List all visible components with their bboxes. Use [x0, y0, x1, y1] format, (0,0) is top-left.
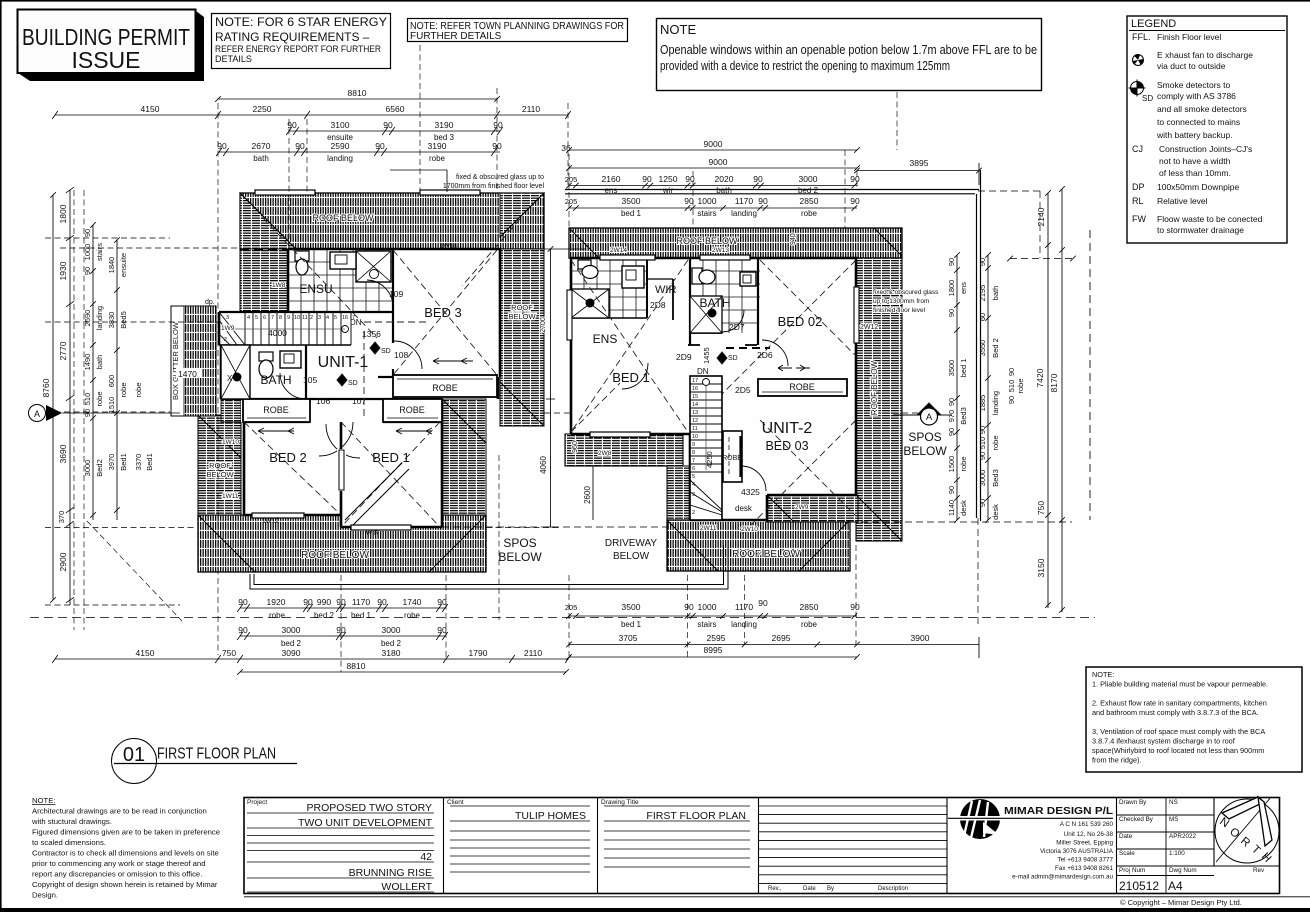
svg-text:with stuctural drawings.: with stuctural drawings. [31, 817, 112, 826]
svg-text:90: 90 [493, 120, 503, 130]
svg-text:90: 90 [684, 196, 694, 206]
svg-text:Checked By: Checked By [1119, 816, 1154, 823]
svg-text:UNIT-2: UNIT-2 [762, 420, 813, 437]
svg-text:fixed & obscured glass up to: fixed & obscured glass up to [456, 174, 544, 181]
svg-text:prior to commencing any work o: prior to commencing any work or stage th… [32, 859, 205, 868]
unit2 bed03 door arc [741, 466, 766, 491]
u1 bottom dim row1 [240, 607, 445, 609]
svg-text:106: 106 [316, 396, 330, 406]
unit1 exterior walls [219, 249, 500, 527]
svg-text:90: 90 [437, 597, 447, 607]
unit2 bed03 robe [723, 431, 742, 482]
svg-text:ISSUE: ISSUE [71, 47, 140, 73]
u2 top dim 3895 [857, 170, 979, 172]
svg-text:e-mail admin@mimardesign.com.a: e-mail admin@mimardesign.com.au [1012, 874, 1113, 881]
svg-text:3000: 3000 [83, 460, 92, 477]
svg-text:1170: 1170 [352, 597, 371, 607]
svg-text:and bathroom must comply with: and bathroom must comply with 3.8.7.3 of… [1092, 708, 1259, 717]
unit1 bath vanity [280, 351, 301, 368]
unit1 robe bed2 [243, 399, 310, 422]
svg-text:90: 90 [375, 141, 385, 151]
note box town planning [408, 19, 628, 42]
svg-text:1490: 1490 [83, 354, 92, 371]
svg-text:ROBE: ROBE [263, 405, 289, 415]
svg-text:2: 2 [310, 315, 313, 321]
svg-text:210512: 210512 [1119, 879, 1159, 893]
svg-text:2595: 2595 [707, 633, 726, 643]
copyright line [244, 896, 1310, 898]
svg-text:990: 990 [317, 597, 331, 607]
right dim col B [987, 255, 989, 520]
unit1 roof bottom band [198, 515, 486, 572]
u2 top extension dashed [569, 150, 857, 228]
svg-text:Dwg Num: Dwg Num [1169, 867, 1197, 874]
svg-text:1455: 1455 [702, 347, 711, 364]
svg-text:BED 2: BED 2 [269, 450, 307, 465]
page border left [0, 0, 2, 912]
svg-text:8: 8 [692, 450, 695, 456]
svg-text:9: 9 [692, 442, 695, 448]
svg-text:BOX GUTTER BELOW: BOX GUTTER BELOW [171, 321, 180, 400]
svg-text:3000: 3000 [799, 174, 818, 184]
unit1 eave bold dashed [240, 248, 292, 250]
svg-text:2770: 2770 [58, 341, 68, 360]
svg-text:7: 7 [352, 315, 355, 321]
svg-text:Drawn By: Drawn By [1119, 799, 1147, 806]
svg-text:3: 3 [692, 492, 695, 498]
svg-text:DETAILS: DETAILS [215, 54, 252, 64]
svg-text:2160: 2160 [602, 174, 621, 184]
svg-text:90: 90 [383, 120, 393, 130]
svg-text:WOLLERT: WOLLERT [381, 881, 432, 893]
u2 top dim 9000 [569, 149, 857, 151]
svg-text:2W9: 2W9 [795, 504, 809, 511]
svg-text:5: 5 [692, 474, 695, 480]
svg-text:Tel +613 9408 3777: Tel +613 9408 3777 [1058, 857, 1114, 864]
svg-text:REFER ENERGY REPORT FOR FURTHE: REFER ENERGY REPORT FOR FURTHER [215, 44, 381, 54]
unit1 bed3 door arc [394, 341, 422, 369]
svg-text:BELOW: BELOW [498, 550, 542, 564]
svg-text:9000: 9000 [709, 157, 728, 167]
svg-text:90: 90 [947, 486, 956, 494]
u1 top dim row D [219, 151, 500, 153]
u1 bottom dim row2 [240, 635, 445, 637]
unit1 roof left band [240, 249, 288, 312]
svg-text:MS: MS [1169, 816, 1178, 823]
unit1 stairs [219, 312, 351, 345]
svg-text:BELOW: BELOW [508, 312, 536, 321]
svg-text:370: 370 [57, 511, 66, 524]
svg-text:to stormwater drainage: to stormwater drainage [1157, 225, 1244, 235]
svg-text:CJ: CJ [1132, 144, 1143, 154]
svg-text:landing: landing [731, 209, 757, 218]
svg-text:Contractor is to check all dim: Contractor is to check all dimensions an… [32, 849, 219, 858]
svg-text:1470: 1470 [178, 369, 197, 379]
svg-text:1:100: 1:100 [1169, 850, 1185, 857]
svg-text:3100: 3100 [331, 120, 350, 130]
svg-text:90: 90 [1007, 396, 1016, 404]
unit1 ensuite toilet [295, 251, 309, 261]
dashed spos lines [420, 526, 667, 528]
unit2 interior white [571, 258, 856, 434]
svg-text:SD: SD [1142, 94, 1153, 103]
svg-text:4325: 4325 [741, 487, 760, 497]
svg-text:BELOW: BELOW [903, 444, 947, 458]
svg-text:robe: robe [95, 391, 104, 406]
svg-text:landing: landing [327, 154, 353, 163]
svg-text:RATING REQUIREMENTS –: RATING REQUIREMENTS – [215, 30, 370, 44]
svg-text:ROBE: ROBE [432, 383, 458, 393]
svg-text:12: 12 [692, 418, 698, 424]
svg-text:Bed5: Bed5 [119, 311, 128, 329]
svg-text:landing: landing [991, 391, 1000, 415]
svg-text:1000: 1000 [83, 244, 92, 261]
svg-text:3000: 3000 [978, 470, 987, 487]
svg-text:1000: 1000 [698, 196, 717, 206]
svg-text:bed 1: bed 1 [959, 359, 968, 378]
svg-text:2250: 2250 [253, 104, 272, 114]
svg-text:Bed1: Bed1 [119, 453, 128, 471]
svg-text:8995: 8995 [704, 645, 723, 655]
unit1 wall bath right [305, 345, 307, 399]
svg-text:1W16: 1W16 [440, 243, 457, 250]
unit1 bed2 bed1 doors [319, 422, 353, 456]
svg-text:E xhaust fan to discharge: E xhaust fan to discharge [1157, 50, 1253, 60]
svg-text:Relative level: Relative level [1157, 196, 1208, 206]
svg-text:bed 2: bed 2 [381, 639, 402, 648]
svg-text:6560: 6560 [386, 104, 405, 114]
svg-text:90: 90 [850, 196, 860, 206]
svg-text:BRUNNING RISE: BRUNNING RISE [349, 867, 432, 879]
svg-text:750: 750 [1036, 501, 1046, 515]
svg-text:Project: Project [247, 799, 267, 806]
svg-text:2W11: 2W11 [700, 525, 717, 532]
svg-text:from the ridge).: from the ridge). [1092, 756, 1141, 765]
unit2 hip lines [874, 228, 902, 256]
unit2 ens tiles [571, 258, 647, 318]
svg-text:2600: 2600 [583, 486, 592, 504]
svg-text:970: 970 [947, 410, 956, 423]
svg-text:16: 16 [342, 315, 348, 321]
svg-text:robe: robe [119, 382, 128, 397]
svg-text:11: 11 [302, 315, 308, 321]
svg-text:Smoke detectors to: Smoke detectors to [1157, 80, 1231, 90]
svg-text:2140: 2140 [1036, 207, 1046, 226]
svg-text:9000: 9000 [704, 139, 723, 149]
bottom long dashed line [30, 617, 1095, 619]
svg-text:2D5: 2D5 [735, 385, 751, 395]
svg-text:1790: 1790 [469, 648, 488, 658]
svg-text:fixed & obscured glass: fixed & obscured glass [873, 289, 939, 296]
svg-text:2695: 2695 [772, 633, 791, 643]
svg-text:desk: desk [991, 504, 1000, 520]
unit1 bed3 robe [393, 375, 497, 397]
unit1 roof left lower column [198, 415, 241, 515]
svg-text:108: 108 [394, 350, 408, 360]
unit2 bath tiles [690, 258, 760, 333]
svg-text:ensuite: ensuite [119, 253, 128, 277]
svg-text:8810: 8810 [348, 88, 367, 98]
svg-text:stairs: stairs [697, 209, 716, 218]
svg-text:DN: DN [697, 367, 709, 376]
svg-text:RL: RL [1132, 196, 1144, 206]
unit1 bed2 dashed diag [244, 422, 440, 527]
svg-text:Finish Floor level: Finish Floor level [1157, 32, 1221, 42]
svg-text:90: 90 [947, 428, 956, 436]
svg-text:2195: 2195 [978, 285, 987, 302]
unit2 roof right column [856, 258, 902, 541]
svg-text:ROOF BELOW: ROOF BELOW [870, 360, 879, 415]
svg-text:robe: robe [1016, 378, 1025, 393]
svg-text:ROOF BELOW: ROOF BELOW [732, 549, 800, 560]
svg-text:A: A [34, 409, 40, 419]
svg-text:bed 2: bed 2 [281, 639, 302, 648]
svg-text:4: 4 [247, 315, 250, 321]
left dashed construction lines [45, 190, 560, 630]
svg-text:robe: robe [404, 611, 421, 620]
svg-text:ens: ens [959, 282, 968, 294]
svg-text:3150: 3150 [1036, 558, 1046, 577]
svg-text:3690: 3690 [58, 444, 68, 463]
svg-text:ROOF BELOW: ROOF BELOW [676, 236, 738, 246]
unit1 wall bed2/bed1 [340, 422, 343, 527]
svg-text:X: X [227, 374, 233, 383]
svg-text:SPOS: SPOS [503, 536, 536, 550]
svg-text:90: 90 [685, 174, 695, 184]
svg-text:Fax +613 9408 8261: Fax +613 9408 8261 [1055, 865, 1113, 872]
svg-text:1930: 1930 [58, 261, 68, 280]
svg-text:Floow waste to be conected: Floow waste to be conected [1157, 214, 1263, 224]
svg-text:Rev: Rev [1253, 867, 1265, 874]
unit1 roof top band [240, 193, 544, 249]
unit1 door 109 arc [367, 280, 393, 306]
svg-text:3550: 3550 [978, 340, 987, 357]
bottom right note box [1086, 667, 1302, 772]
svg-text:By: By [827, 886, 834, 892]
svg-text:2D7: 2D7 [729, 322, 745, 332]
svg-text:FFL.: FFL. [1132, 32, 1151, 42]
unit1 ensuite tiles [288, 249, 393, 312]
svg-text:90: 90 [238, 625, 248, 635]
svg-text:Unit 12, No 26-38: Unit 12, No 26-38 [1064, 831, 1114, 838]
svg-text:Copyright of design shown here: Copyright of design shown herein is reta… [32, 880, 218, 889]
right dim col A [956, 255, 958, 520]
svg-text:90: 90 [850, 602, 860, 612]
svg-text:FIRST FLOOR PLAN: FIRST FLOOR PLAN [157, 746, 276, 763]
svg-text:90: 90 [850, 174, 860, 184]
svg-text:510: 510 [83, 393, 92, 406]
svg-text:Rev.,: Rev., [768, 886, 782, 892]
svg-text:7: 7 [692, 458, 695, 464]
svg-text:3500: 3500 [622, 196, 641, 206]
u2 top dim row B [569, 207, 857, 209]
svg-text:© Copyright – Mimar Design Pt: © Copyright – Mimar Design Pty Ltd. [1120, 898, 1242, 907]
title block frame [244, 798, 1280, 894]
svg-text:90: 90 [83, 267, 92, 275]
info column [1117, 798, 1280, 894]
unit2 bath shower [690, 296, 722, 333]
svg-text:3895: 3895 [910, 158, 929, 168]
svg-text:3000: 3000 [382, 625, 401, 635]
svg-text:2W8: 2W8 [598, 450, 612, 457]
svg-text:robe: robe [801, 620, 818, 629]
svg-text:2110: 2110 [522, 104, 541, 114]
svg-text:14: 14 [692, 402, 698, 408]
svg-text:SD: SD [348, 380, 358, 387]
svg-text:Proj Num: Proj Num [1119, 867, 1145, 874]
unit2 bed1 door arc [622, 363, 648, 389]
svg-text:90: 90 [437, 625, 447, 635]
svg-text:1800: 1800 [947, 280, 956, 297]
svg-text:up to 1300mm from: up to 1300mm from [873, 298, 929, 305]
svg-text:bath: bath [991, 286, 1000, 301]
svg-text:to connected to mains: to connected to mains [1157, 117, 1240, 127]
page border top [0, 0, 1310, 2]
svg-text:107: 107 [352, 396, 366, 406]
svg-text:2670: 2670 [252, 141, 271, 151]
svg-text:1W12: 1W12 [262, 518, 279, 525]
svg-text:BATH: BATH [699, 296, 730, 310]
svg-text:1500: 1500 [947, 456, 956, 473]
svg-text:Bed1: Bed1 [145, 453, 154, 471]
bottom extension dashed [341, 455, 856, 672]
u1 top dim 8810 [218, 98, 497, 100]
u2 bottom dim row2 [569, 644, 856, 646]
svg-text:SPOS: SPOS [908, 430, 941, 444]
unit1 bath toilet [259, 352, 273, 361]
svg-text:robe: robe [429, 154, 446, 163]
svg-text:dp.: dp. [205, 299, 215, 306]
svg-text:BATH: BATH [260, 373, 291, 387]
u1 top dim row B [55, 114, 568, 116]
svg-text:4000: 4000 [268, 328, 287, 338]
svg-text:90: 90 [758, 196, 768, 206]
unit2 bed02 dashed X [700, 260, 856, 536]
svg-text:90: 90 [83, 229, 92, 237]
unit2 roof desk arm [767, 495, 858, 522]
svg-text:3370: 3370 [134, 454, 143, 471]
svg-text:7420: 7420 [1035, 368, 1045, 387]
svg-text:6: 6 [692, 466, 695, 472]
svg-text:provided with a device to rest: provided with a device to restrict the o… [660, 59, 950, 73]
svg-text:8170: 8170 [1049, 373, 1059, 392]
svg-text:bed 1: bed 1 [351, 611, 372, 620]
unit2 ens toilet [578, 260, 591, 269]
left dim col1 [69, 190, 71, 605]
svg-text:10: 10 [692, 434, 698, 440]
unit2 bath vanity [740, 272, 756, 286]
svg-text:robe: robe [134, 382, 143, 397]
svg-text:16: 16 [692, 386, 698, 392]
unit1 bed3 window arrows [433, 358, 473, 364]
svg-text:Drawing Title: Drawing Title [601, 799, 639, 806]
svg-text:Openable windows within an ope: Openable windows within an openable poti… [660, 43, 1037, 57]
svg-text:90: 90 [238, 597, 248, 607]
svg-text:2900: 2900 [58, 552, 68, 571]
unit1 roof right lower column [442, 399, 486, 515]
unit1 roof right column [500, 249, 544, 426]
svg-text:ROOF: ROOF [511, 303, 533, 312]
svg-text:bed 1: bed 1 [621, 620, 642, 629]
svg-text:to scaled dimensions.: to scaled dimensions. [32, 838, 106, 847]
svg-text:90: 90 [947, 398, 956, 406]
mimar logo [960, 799, 1000, 839]
svg-text:3: 3 [226, 315, 229, 321]
dim end ticks [215, 96, 221, 102]
page border bottom thick [0, 908, 1310, 912]
svg-text:desk: desk [735, 504, 753, 513]
svg-text:FIRST FLOOR PLAN: FIRST FLOOR PLAN [646, 810, 746, 822]
svg-text:105: 105 [303, 375, 317, 385]
svg-text:13: 13 [692, 410, 698, 416]
svg-text:1920: 1920 [267, 597, 286, 607]
unit1 bed1 chevron [345, 463, 402, 520]
unit2 bath door arc [722, 310, 744, 332]
unit1 interior white [288, 249, 500, 377]
svg-text:2700: 2700 [540, 317, 547, 333]
svg-text:3190: 3190 [435, 120, 454, 130]
svg-text:Bed2: Bed2 [95, 459, 104, 477]
svg-text:2. Exhaust flow rate in sanita: 2. Exhaust flow rate in sanitary compart… [1092, 699, 1267, 708]
unit2 bed02 door arc [762, 340, 788, 366]
svg-text:Date: Date [803, 886, 816, 892]
svg-text:ROOF BELOW: ROOF BELOW [301, 550, 369, 561]
left section marker A [46, 405, 62, 421]
u2 bottom dim 8995 [569, 656, 857, 658]
svg-text:3.8.7.4 ifexhaust system disch: 3.8.7.4 ifexhaust system discharge in to… [1092, 737, 1236, 746]
svg-text:robe: robe [991, 435, 1000, 450]
unit1 robe bed1 [383, 399, 442, 422]
svg-text:2W14: 2W14 [610, 247, 627, 254]
svg-text:wir: wir [662, 186, 674, 195]
svg-text:stairs: stairs [95, 243, 104, 261]
svg-text:ROOF: ROOF [209, 461, 231, 470]
unit1 wall ensu/bed3 [392, 249, 394, 343]
svg-text:finished floor level: finished floor level [873, 307, 926, 314]
svg-text:2: 2 [224, 337, 227, 343]
north arrow [1215, 799, 1279, 863]
svg-text:ROBE: ROBE [789, 382, 815, 392]
unit1 wall stairs bottom [219, 344, 351, 346]
unit1 wall robe row top [221, 398, 442, 400]
svg-text:100x50mm Downpipe: 100x50mm Downpipe [1157, 182, 1239, 192]
svg-text:with battery backup.: with battery backup. [1156, 130, 1233, 140]
unit2 roof top band [569, 228, 902, 258]
svg-text:bed 1: bed 1 [621, 209, 642, 218]
svg-text:205: 205 [565, 603, 578, 612]
unit1 bath shower [221, 345, 250, 399]
svg-text:NOTE: FOR 6 STAR ENERGY: NOTE: FOR 6 STAR ENERGY [215, 15, 387, 29]
svg-text:Victoria 3076 AUSTRALIA: Victoria 3076 AUSTRALIA [1040, 848, 1114, 855]
svg-text:DP: DP [1132, 182, 1145, 192]
svg-text:PROPOSED TWO STORY: PROPOSED TWO STORY [307, 802, 432, 814]
legend smoke detector icon [1129, 80, 1154, 104]
unit2 stairs [690, 376, 722, 520]
svg-text:90: 90 [978, 452, 987, 460]
svg-text:UNIT-1: UNIT-1 [318, 354, 369, 371]
svg-text:Bed3: Bed3 [959, 407, 968, 425]
svg-text:3090: 3090 [282, 648, 301, 658]
svg-text:01: 01 [123, 744, 145, 766]
svg-text:FW: FW [1132, 214, 1146, 224]
building permit stamp shadow [57, 11, 204, 81]
svg-text:bath: bath [95, 355, 104, 370]
svg-text:90: 90 [217, 141, 227, 151]
svg-text:FURTHER DETAILS: FURTHER DETAILS [410, 31, 502, 42]
svg-text:NOTE:: NOTE: [1092, 670, 1114, 679]
svg-text:MIMAR DESIGN P/L: MIMAR DESIGN P/L [1004, 805, 1114, 817]
svg-text:2: 2 [692, 510, 695, 516]
